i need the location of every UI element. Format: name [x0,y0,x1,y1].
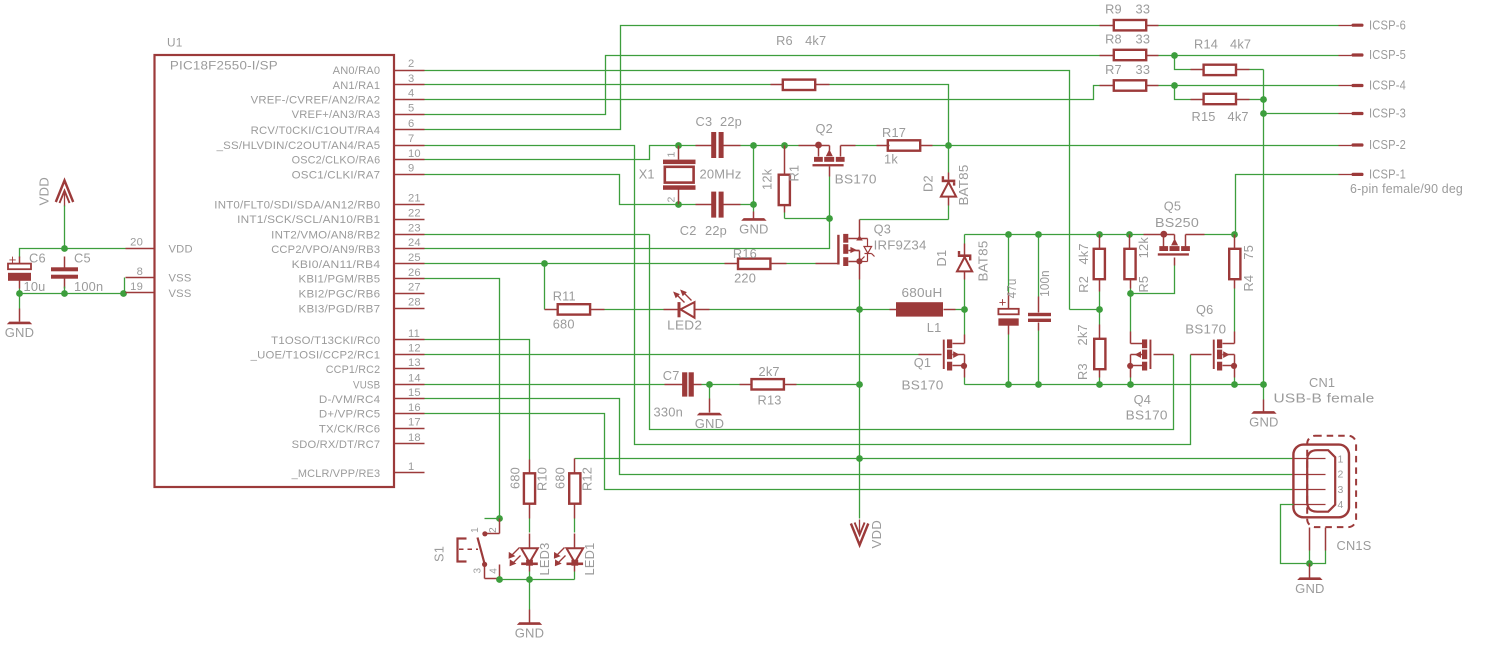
pin 9 OSC1/CLKI/RA7 [292,163,425,182]
svg-text:D1: D1 [934,250,949,267]
wire R6 to ICSP-2 net [830,85,949,146]
svg-text:15: 15 [408,387,421,399]
wire pin2 AN0 to R2/R3 divider [425,71,1070,310]
capacitor C3 22p [679,114,754,158]
wire Q5 gate to node [1131,258,1175,294]
svg-text:16: 16 [408,402,421,414]
svg-text:C5: C5 [74,251,91,266]
wire VDD column [859,310,861,519]
pin 28 KBI3/PGD/RB7 [299,297,425,316]
junction X1 pin1 [675,142,682,149]
connector CN1S shield pins [1310,528,1372,564]
power-flag VDD (top left) [36,177,73,207]
svg-text:R2: R2 [1076,276,1091,293]
svg-text:VDD: VDD [36,177,51,206]
wire R1 bottom to Q2 gate node [785,218,830,220]
svg-text:BS170: BS170 [835,171,877,186]
junction C1 top [1035,231,1042,238]
svg-text:33: 33 [1136,1,1151,16]
svg-text:Q4: Q4 [1134,392,1151,407]
svg-text:12k: 12k [1136,237,1151,259]
svg-text:4k7: 4k7 [805,33,826,48]
wire pin23 row [425,234,650,236]
svg-text:R15: R15 [1192,109,1216,124]
ground GND (left) [5,294,35,341]
inductor L1 680uH [860,285,965,335]
svg-text:D2: D2 [921,175,936,192]
svg-text:BS170: BS170 [1126,408,1168,423]
transistor Q5 BS250 [1144,199,1205,256]
junction R15 right [1260,96,1267,103]
ground GND (rail right) [1249,385,1279,430]
pin 11 T1OSO/T13CKI/RC0 [271,328,424,347]
svg-text:X1: X1 [639,167,655,182]
svg-text:LED1: LED1 [582,543,597,576]
svg-text:OSC1/CLKI/RA7: OSC1/CLKI/RA7 [292,170,381,182]
transistor Q1 BS170 [902,310,968,393]
svg-text:SDO/RX/DT/RC7: SDO/RX/DT/RC7 [292,439,381,451]
svg-text:11: 11 [408,328,420,340]
power-flag VDD (bottom, down arrow) [851,520,884,549]
label 6-pin female/90 deg [1350,181,1463,196]
pin 20 VDD [126,237,193,256]
svg-text:R12: R12 [580,467,595,491]
svg-text:R9: R9 [1105,1,1122,16]
resistor R1 12k [759,146,801,219]
svg-text:4: 4 [408,88,414,100]
svg-text:GND: GND [515,626,545,641]
svg-text:100n: 100n [74,279,103,294]
svg-text:R3: R3 [1075,363,1090,380]
junction S1 bottom [496,576,503,583]
svg-text:VUSB: VUSB [353,379,380,391]
junction R5 bottom / Q5 gate / Q4 drain [1127,290,1134,297]
junction R8 / R14 / ICSP-5 [1171,52,1178,59]
pin 24 CCP2/VPO/AN9/RB3 [271,237,424,256]
svg-text:R16: R16 [733,246,757,261]
crystal X1 20MHz [639,146,742,205]
svg-text:R5: R5 [1136,276,1151,293]
svg-text:ICSP-6: ICSP-6 [1369,17,1406,32]
svg-text:VDD: VDD [869,520,884,549]
svg-text:+: + [9,252,17,267]
svg-text:KBI0/AN11/RB4: KBI0/AN11/RB4 [292,259,381,271]
svg-text:3: 3 [473,568,484,574]
junction R4/Q6 [1231,381,1238,388]
svg-text:12: 12 [408,343,421,355]
capacitor C2 22p [679,192,754,238]
junction R5 top [1126,231,1133,238]
svg-text:4: 4 [1338,499,1344,511]
svg-text:Q3: Q3 [874,221,891,236]
svg-text:GND: GND [739,222,769,237]
pin 23 INT2/VMO/AN8/RB2 [271,223,424,242]
svg-text:22: 22 [408,207,421,219]
svg-text:25: 25 [408,252,421,264]
transistor Q6 BS170 [1185,302,1237,385]
wire C3 to R1/Q2 source [754,145,816,147]
svg-text:27: 27 [408,282,421,294]
pin 18 SDO/RX/DT/RC7 [292,432,425,451]
wire ICSP-3 row [1264,113,1339,115]
svg-text:6-pin female/90 deg: 6-pin female/90 deg [1350,181,1463,196]
junction VDD rail [61,245,68,252]
svg-text:Q5: Q5 [1164,199,1181,214]
svg-text:1: 1 [666,151,678,157]
pad ICSP-3 [1339,106,1407,121]
junction R17 / D2 / ICSP-2 [945,142,952,149]
svg-text:BS250: BS250 [1155,215,1199,230]
pad ICSP-6 [1339,17,1407,32]
wire pin26 to S1 [425,279,500,519]
resistor R5 12k [1124,235,1151,294]
wire ICSP-4 row [1175,85,1339,87]
svg-text:RCV/T0CKI/C1OUT/RA4: RCV/T0CKI/C1OUT/RA4 [251,125,381,137]
svg-text:KBI2/PGC/RB6: KBI2/PGC/RB6 [299,289,381,301]
ground GND (LEDs) [515,580,545,641]
svg-text:2k7: 2k7 [759,364,780,379]
wire pin23 net to Q4 gate [650,235,1174,430]
svg-text:22p: 22p [720,114,742,129]
diode D1 BAT85 [934,235,991,310]
svg-text:1: 1 [408,461,414,473]
svg-text:3: 3 [408,73,414,85]
wire pin24 to Q2 gate [425,177,830,249]
wire ground rail [965,384,1264,386]
resistor R3 2k7 [1075,310,1106,385]
svg-text:_MCLR/VPP/RE3: _MCLR/VPP/RE3 [291,468,381,480]
svg-text:VSS: VSS [169,273,192,285]
svg-text:2: 2 [666,196,678,202]
pin 25 KBI0/AN11/RB4 [292,252,425,271]
junction L1 left [856,306,863,313]
ground GND (C7) [695,385,725,432]
svg-text:KBI1/PGM/RB5: KBI1/PGM/RB5 [299,274,381,286]
capacitor C4 47u [998,235,1019,385]
svg-text:R14: R14 [1194,36,1218,51]
svg-text:R17: R17 [882,125,906,140]
LED LED2 [605,290,860,333]
svg-text:R4: R4 [1241,275,1256,292]
svg-text:GND: GND [1249,415,1279,430]
svg-text:680uH: 680uH [902,285,943,300]
wire pin7 to Q6 gate [425,146,1191,445]
svg-text:9: 9 [408,163,414,175]
svg-text:33: 33 [1136,62,1151,77]
IC U1 PIC18F2550-I/SP body [155,36,395,488]
svg-text:24: 24 [408,237,421,249]
wire pin14 VUSB to C7 [425,384,665,386]
wire ICSP-5 row [1175,55,1339,57]
svg-text:680: 680 [553,316,575,331]
transistor Q3 IRF9Z34 [837,221,926,279]
pin 15 D-/VM/RC4 [319,387,425,406]
resistor R11 680 [545,264,605,332]
junction C3 right [750,142,757,149]
svg-text:Q2: Q2 [816,121,833,136]
resistor R17 1k [882,125,949,167]
pin 1 _MCLR/VPP/RE3 [291,461,425,480]
wire C3 to C2 [753,146,755,205]
svg-text:33: 33 [1136,32,1151,47]
svg-text:ICSP-4: ICSP-4 [1369,78,1406,93]
pin 13 CCP1/RC2 [326,357,425,376]
svg-text:20: 20 [130,237,143,249]
resistor R8 33 [1100,32,1175,61]
svg-text:12k: 12k [759,168,774,190]
svg-text:D-/VM/RC4: D-/VM/RC4 [319,394,380,406]
svg-text:ICSP-5: ICSP-5 [1369,47,1406,62]
svg-text:R6: R6 [776,33,793,48]
ground GND (USB shield) [1295,564,1325,596]
svg-text:R10: R10 [535,467,550,491]
svg-text:VREF+/AN3/RA3: VREF+/AN3/RA3 [292,109,381,121]
svg-text:1: 1 [1338,453,1344,465]
svg-text:LED2: LED2 [667,318,702,333]
svg-text:R11: R11 [553,288,576,303]
wire VBUS row to R12 [575,458,1294,460]
svg-text:28: 28 [408,297,421,309]
pin 19 VSS [126,281,192,300]
connector CN1 USB-B female [1274,375,1375,527]
pad ICSP-4 [1339,78,1407,93]
junction C7 / GND [706,381,713,388]
svg-text:22p: 22p [705,223,727,238]
svg-text:4k7: 4k7 [1076,243,1091,264]
pad ICSP-5 [1339,47,1407,62]
wire pin10 to crystal [425,146,679,160]
wire pin16 D+ to USB pin3 [425,414,1294,490]
junction X1 pin2 [675,201,682,208]
junction R2/R3 divider to pin2 [1096,306,1103,313]
resistor R15 4k7 [1175,86,1264,125]
svg-text:680: 680 [507,467,522,489]
junction R1 top [781,142,788,149]
wire LED ground row [500,579,575,581]
wire Q3 drain / L1 / LED2 node [859,280,861,310]
junction S1 pin2 [496,515,503,522]
resistor R14 4k7 [1175,36,1264,75]
wire divider to AN0 column [1070,309,1100,311]
svg-text:75: 75 [1241,245,1256,260]
diode D2 BAT85 [921,146,972,220]
svg-text:R1: R1 [787,165,802,182]
resistor R9 33 [1100,1,1339,30]
wire Q4 drain column [1130,294,1132,344]
junction C4 gnd [1005,381,1012,388]
svg-text:6: 6 [408,118,414,130]
svg-text:4k7: 4k7 [1230,36,1251,51]
switch S1 [432,519,500,579]
pin 26 KBI1/PGM/RB5 [299,267,425,286]
svg-text:CN1S: CN1S [1337,538,1372,553]
junction VSS gnd [120,290,127,297]
svg-text:17: 17 [408,417,421,429]
svg-text:S1: S1 [432,546,447,562]
svg-text:2: 2 [1338,469,1344,481]
wire R14/R15 to ground rail [1263,70,1265,385]
junction L1 right / D1 / Q1 drain [961,306,968,313]
resistor R7 33 [1100,62,1175,91]
pin 27 KBI2/PGC/RB6 [299,282,425,301]
svg-text:IRF9Z34: IRF9Z34 [874,237,927,252]
capacitor C1 100n [1028,235,1052,385]
svg-text:BS170: BS170 [902,378,944,393]
ground GND (crystal) [739,205,769,237]
svg-text:C6: C6 [29,251,46,266]
svg-text:PIC18F2550-I/SP: PIC18F2550-I/SP [170,59,278,73]
junction C2 right [750,201,757,208]
svg-text:VREF-/CVREF/AN2/RA2: VREF-/CVREF/AN2/RA2 [251,95,381,107]
svg-text:47u: 47u [1004,278,1019,298]
wire ground rail under C5/C6 [20,278,126,294]
svg-text:BAT85: BAT85 [956,165,971,206]
svg-text:14: 14 [408,373,421,385]
svg-text:26: 26 [408,267,421,279]
svg-text:CCP2/VPO/AN9/RB3: CCP2/VPO/AN9/RB3 [271,244,380,256]
pin 22 INT1/SCK/SCL/AN10/RB1 [237,207,424,226]
pin 12 _UOE/T1OSI/CCP2/RC1 [250,343,425,362]
capacitor C5 100n [51,251,103,295]
wire USB pin4 to shield [1281,505,1310,564]
svg-text:LED3: LED3 [537,543,552,576]
svg-text:L1: L1 [927,320,942,335]
junction C6 gnd [16,290,23,297]
resistor R4 75 [1229,235,1256,332]
wire pin4 to R7 [425,86,1100,100]
LED LED1 [554,534,597,580]
junction Q4 source gnd [1127,381,1134,388]
wire ICSP-2 net [949,145,1339,147]
svg-text:BS170: BS170 [1185,321,1226,336]
svg-text:TX/CK/RC6: TX/CK/RC6 [319,424,380,436]
pin 16 D+/VP/RC5 [319,402,425,421]
svg-text:INT1/SCK/SCL/AN10/RB1: INT1/SCK/SCL/AN10/RB1 [237,214,380,226]
junction C1 gnd [1035,381,1042,388]
junction ICSP-3 tap [1260,110,1267,117]
wire pin25 to R16 [425,263,725,265]
junction gnd rail right [1260,381,1267,388]
wire D2 anode to Q3 source [860,220,949,239]
svg-text:8: 8 [137,266,143,278]
svg-text:VSS: VSS [169,288,192,300]
svg-text:R7: R7 [1105,62,1122,77]
svg-text:CCP1/RC2: CCP1/RC2 [326,364,381,376]
svg-text:R8: R8 [1105,32,1122,47]
svg-text:INT2/VMO/AN8/RB2: INT2/VMO/AN8/RB2 [271,229,380,241]
pin 2 AN0/RA0 [333,58,425,77]
svg-text:4: 4 [489,568,500,574]
resistor R12 680 [552,459,594,533]
svg-text:1k: 1k [884,152,898,167]
svg-text:2k7: 2k7 [1075,324,1090,345]
svg-text:C3: C3 [696,114,713,129]
svg-text:2: 2 [408,58,414,70]
junction LED3 cathode [526,576,533,583]
pin 5 VREF+/AN3/RA3 [292,102,425,121]
pin 17 TX/CK/RC6 [319,417,425,436]
pin 14 VUSB [353,373,425,392]
svg-text:10: 10 [408,148,421,160]
junction R4 top / ICSP-1 [1231,231,1238,238]
wire pin3 AN1 to R6 [425,84,771,86]
svg-text:330n: 330n [654,405,684,420]
wire +5V rail to pin 20 [20,249,126,258]
junction shield gnd [1306,560,1313,567]
svg-text:GND: GND [5,325,35,340]
svg-text:5: 5 [408,102,414,114]
junction R7 / R15 / ICSP-4 [1171,82,1178,89]
pin 6 RCV/T0CKI/C1OUT/RA4 [251,118,425,137]
svg-text:100n: 100n [1037,270,1052,297]
svg-text:C7: C7 [663,368,680,383]
svg-text:_UOE/T1OSI/CCP2/RC1: _UOE/T1OSI/CCP2/RC1 [250,349,381,361]
pad ICSP-1 [1339,167,1407,182]
wire pin5 to R8 row [425,56,1100,115]
pad ICSP-2 [1339,137,1407,152]
svg-text:R13: R13 [758,392,782,407]
svg-text:USB-B female: USB-B female [1274,391,1375,406]
svg-text:U1: U1 [167,36,182,50]
wire VDD to C5/C6 rail [64,206,66,249]
svg-text:21: 21 [408,193,421,205]
wire +5 rail (top) [965,234,1235,236]
svg-text:T1OSO/T13CKI/RC0: T1OSO/T13CKI/RC0 [271,335,380,347]
pin 3 AN1/RA1 [333,73,425,92]
svg-text:220: 220 [734,271,756,286]
svg-text:ICSP-1: ICSP-1 [1369,167,1406,182]
svg-text:1: 1 [470,527,481,533]
wire Q2 drain to R17 [841,145,890,147]
wire pin6 to R9 row [425,26,1100,130]
svg-text:OSC2/CLKO/RA6: OSC2/CLKO/RA6 [292,155,381,167]
capacitor C7 330n [654,368,710,420]
svg-text:VDD: VDD [169,243,193,255]
wire ICSP-1 to +5 rail [1236,175,1339,235]
wire pin12 to Q1 gate [425,354,942,356]
resistor R2 4k7 [1076,235,1105,310]
pin 10 OSC2/CLKO/RA6 [292,148,425,167]
wire pin15 D- to USB pin2 [425,399,1294,475]
svg-text:BAT85: BAT85 [975,240,990,281]
wire pin11 to R10 [425,340,530,460]
transistor Q4 BS170 [1126,339,1168,422]
resistor R10 680 [507,460,549,533]
svg-text:4k7: 4k7 [1228,109,1249,124]
junction C4 top [1005,231,1012,238]
svg-text:7: 7 [408,133,414,145]
svg-text:AN1/RA1: AN1/RA1 [333,80,381,92]
pin 21 INT0/FLT0/SDI/SDA/AN12/RB0 [214,193,424,212]
svg-text:D+/VP/RC5: D+/VP/RC5 [319,409,380,421]
svg-text:KBI3/PGD/RB7: KBI3/PGD/RB7 [299,304,381,316]
svg-text:AN0/RA0: AN0/RA0 [333,65,381,77]
resistor R16 220 [725,246,787,286]
resistor R13 2k7 [710,364,860,407]
capacitor C6 10u [8,251,46,295]
svg-text:2: 2 [488,527,499,533]
svg-text:18: 18 [408,432,421,444]
wire pin9 to crystal pin2 row [425,175,679,205]
pin 4 VREF-/CVREF/AN2/RA2 [251,88,425,107]
svg-text:GND: GND [1295,581,1325,596]
svg-text:_SS/HLVDIN/C2OUT/AN4/RA5: _SS/HLVDIN/C2OUT/AN4/RA5 [216,140,381,152]
svg-text:680: 680 [552,467,567,489]
svg-text:3: 3 [1338,484,1344,496]
svg-text:ICSP-3: ICSP-3 [1369,106,1406,121]
LED LED3 [509,534,552,580]
junction R13 / VDD [856,381,863,388]
